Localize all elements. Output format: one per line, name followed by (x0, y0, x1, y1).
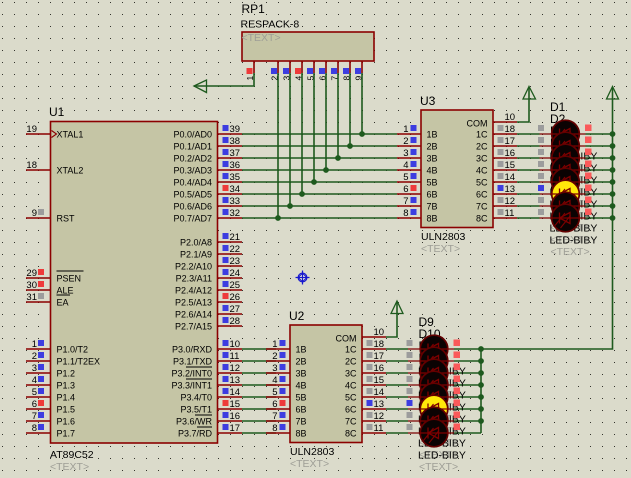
svg-text:1: 1 (403, 124, 408, 135)
wire D3 cathode to bus (586, 157, 613, 159)
U1 pin 2 (P1.1/T2EX) (26, 351, 100, 367)
D13 cathode state square (454, 388, 461, 395)
svg-text:6B: 6B (427, 190, 438, 200)
wire U3 output to D6 anode (517, 193, 540, 195)
wire net P0.7 from U1 to U3 pin 8 (242, 217, 397, 219)
svg-text:P0.7/AD7: P0.7/AD7 (173, 214, 212, 224)
wire net P0.1 from U1 to U3 pin 2 (242, 145, 397, 147)
svg-text:2: 2 (32, 351, 37, 362)
svg-text:5B: 5B (427, 178, 438, 188)
wire D4 cathode to bus (586, 169, 613, 171)
svg-text:2C: 2C (476, 142, 488, 152)
wire net P0.2 from U1 to U3 pin 3 (242, 157, 397, 159)
svg-text:6: 6 (272, 399, 277, 410)
U1 pin 10 (P3.0/RXD) (172, 339, 242, 355)
U1 pin 32 (P0.7/AD7) (173, 208, 242, 224)
LED D2 labels (550, 112, 598, 186)
svg-text:ULN2803: ULN2803 (421, 231, 466, 243)
D11 cathode state square (454, 364, 461, 371)
U3 pin 18 (1C) (476, 124, 517, 140)
LED D7 labels (550, 172, 598, 246)
XTAL1 clock marker (52, 131, 57, 138)
U3 pin 13 (6C) (476, 184, 517, 200)
power terminal arrow (up, U3 COM) (523, 87, 536, 100)
svg-text:P3.0/RXD: P3.0/RXD (172, 345, 213, 355)
U2 pin 17 (2C) (345, 351, 386, 367)
svg-text:P0.5/AD5: P0.5/AD5 (173, 190, 212, 200)
svg-text:ALE: ALE (57, 286, 74, 296)
U1 pin 17 (P3.7/RD) (178, 423, 242, 439)
svg-text:8: 8 (32, 423, 37, 434)
svg-text:4B: 4B (427, 166, 438, 176)
svg-text:14: 14 (230, 387, 241, 398)
U2 body (290, 325, 362, 443)
LED D10 body (408, 347, 454, 375)
wire D7 cathode to bus (586, 205, 613, 207)
VCC bus right vertical (481, 88, 613, 349)
U2 pin 2 (2B) (266, 351, 307, 367)
wire U2 output to D14 anode (386, 408, 408, 410)
U2 pin 16 (3C) (345, 363, 386, 379)
svg-text:1B: 1B (427, 130, 438, 140)
svg-text:4: 4 (403, 160, 408, 171)
U1 body (51, 122, 218, 444)
svg-text:<TEXT>: <TEXT> (419, 461, 458, 473)
svg-text:<TEXT>: <TEXT> (421, 243, 460, 255)
svg-text:18: 18 (374, 339, 385, 350)
U1 pin 38 (P0.1/AD1) (173, 136, 242, 152)
svg-text:13: 13 (505, 184, 516, 195)
svg-text:23: 23 (230, 256, 241, 267)
svg-text:P1.3: P1.3 (57, 381, 76, 391)
wire D1 cathode to bus (586, 133, 613, 135)
darlington array U3 ULN2803 (420, 94, 493, 255)
svg-text:P0.6/AD6: P0.6/AD6 (173, 202, 212, 212)
svg-text:38: 38 (230, 136, 241, 147)
U1 pin 9 (RST) (26, 208, 75, 224)
svg-text:26: 26 (230, 292, 241, 303)
LED D11 labels (418, 339, 466, 413)
svg-text:11: 11 (505, 208, 515, 219)
svg-text:5: 5 (32, 387, 37, 398)
U1 pin 5 (P1.4) (26, 387, 75, 403)
svg-text:5C: 5C (345, 393, 357, 403)
svg-text:P3.2/INT0: P3.2/INT0 (171, 369, 212, 379)
U1 pin 31 (EA) (26, 292, 70, 308)
D6 cathode state square (585, 185, 592, 192)
svg-text:ULN2803: ULN2803 (290, 446, 335, 458)
svg-text:P0.0/AD0: P0.0/AD0 (173, 130, 212, 140)
svg-text:<TEXT>: <TEXT> (50, 461, 89, 473)
svg-text:AT89C52: AT89C52 (50, 449, 94, 461)
LED D3 labels (550, 124, 598, 198)
U3 pin 15 (4C) (476, 160, 517, 176)
wire U3 output to D5 anode (517, 181, 540, 183)
D8 cathode state square (585, 209, 592, 216)
microcontroller U1 AT89C52 (49, 105, 218, 473)
LED D7 body (540, 192, 586, 220)
svg-text:1: 1 (272, 339, 277, 350)
svg-text:P3.3/INT1: P3.3/INT1 (171, 381, 212, 391)
svg-text:32: 32 (230, 208, 241, 219)
LED D13 labels (418, 363, 466, 437)
D1 anode state square (538, 125, 544, 131)
junction RP1 pin 6 (323, 167, 329, 173)
LED D5 labels (550, 148, 598, 222)
svg-text:9: 9 (32, 208, 37, 219)
svg-text:1B: 1B (296, 345, 307, 355)
svg-text:P3.4/T0: P3.4/T0 (180, 393, 212, 403)
svg-text:P2.2/A10: P2.2/A10 (175, 262, 212, 272)
svg-text:6C: 6C (476, 190, 488, 200)
RP1 pin 3 (282, 61, 292, 81)
svg-text:18: 18 (26, 160, 37, 171)
RP1 body (242, 32, 374, 61)
U3 pin 14 (5C) (476, 172, 517, 188)
wire RP1 pin 4 to bus row P0.4 (301, 73, 303, 194)
svg-text:25: 25 (230, 280, 241, 291)
wire U2 output to D12 anode (386, 384, 408, 386)
wire U3 output to D2 anode (517, 145, 540, 147)
wire U3 output to D8 anode (517, 217, 540, 219)
svg-text:7: 7 (403, 196, 408, 207)
svg-text:14: 14 (374, 387, 385, 398)
svg-text:P0.4/AD4: P0.4/AD4 (173, 178, 212, 188)
LED D15 body (408, 407, 454, 435)
svg-text:37: 37 (230, 148, 241, 159)
U1 pin 12 (P3.2/INT0) (171, 363, 242, 379)
svg-text:17: 17 (374, 351, 385, 362)
svg-text:1C: 1C (345, 345, 357, 355)
LED D15 labels (418, 387, 466, 461)
U1 pin 30 (ALE) (26, 280, 74, 296)
U1 pin 13 (P3.3/INT1) (171, 375, 242, 391)
D11 anode state square (407, 364, 413, 370)
U2 pin 15 (4C) (345, 375, 386, 391)
svg-text:P3.6/WR: P3.6/WR (176, 417, 213, 427)
svg-text:3C: 3C (476, 154, 488, 164)
junction RP1 pin 8 (347, 143, 353, 149)
U3 body (421, 110, 493, 228)
U2 pin 10 (COM) (362, 327, 386, 338)
D1 cathode state square (585, 125, 592, 132)
svg-text:15: 15 (374, 375, 385, 386)
LED D14 body (408, 395, 454, 423)
svg-text:22: 22 (230, 244, 241, 255)
U1 pin 24 (P2.3/A11) (176, 268, 242, 284)
LED D12 labels (418, 351, 466, 425)
LED D16 labels (418, 399, 466, 473)
U1 pin 37 (P0.2/AD2) (173, 148, 242, 164)
svg-text:XTAL2: XTAL2 (57, 166, 84, 176)
U1 pin 33 (P0.6/AD6) (173, 196, 242, 212)
U3 pin 17 (2C) (476, 136, 517, 152)
svg-text:5: 5 (403, 172, 408, 183)
wire net P3.1 from U1 to U2 pin 2 (242, 360, 276, 362)
wire D11 cathode to bus (454, 372, 481, 374)
svg-text:17: 17 (230, 423, 241, 434)
svg-text:U2: U2 (289, 309, 305, 323)
svg-text:21: 21 (230, 232, 241, 243)
svg-text:RST: RST (57, 214, 76, 224)
svg-text:5B: 5B (296, 393, 307, 403)
bus bottom LED stack vertical (480, 349, 482, 433)
power terminal arrow (up, VCC bus) (607, 87, 619, 100)
svg-text:10: 10 (505, 112, 516, 123)
svg-text:15: 15 (505, 160, 516, 171)
U1 pin 19 (XTAL1) (26, 124, 83, 140)
junction bottom bus row 373 (478, 370, 484, 376)
svg-text:3C: 3C (345, 369, 357, 379)
LED D10 labels (418, 327, 466, 401)
LED D9 labels (418, 315, 466, 389)
RP1 pin 2 (270, 61, 280, 81)
U3 pin 12 (7C) (476, 196, 517, 212)
wire net P0.6 from U1 to U3 pin 7 (242, 205, 397, 207)
U1 pin 8 (P1.7) (26, 423, 75, 439)
svg-text:P0.3/AD3: P0.3/AD3 (173, 166, 212, 176)
U1 pin 26 (P2.5/A13) (175, 292, 242, 308)
wire D13 cathode to bus (454, 396, 481, 398)
svg-text:16: 16 (230, 411, 241, 422)
U1 pin 21 (P2.0/A8) (180, 232, 242, 248)
junction bottom bus row 421 (478, 418, 484, 424)
svg-text:12: 12 (505, 196, 516, 207)
LED D11 body (408, 359, 454, 387)
svg-text:39: 39 (230, 124, 241, 135)
wire D2 cathode to bus (586, 145, 613, 147)
svg-text:5: 5 (272, 387, 277, 398)
U1 pin 3 (P1.2) (26, 363, 75, 379)
U3 pin 16 (3C) (476, 148, 517, 164)
junction RP1 pin 5 (311, 179, 317, 185)
D10 cathode state square (454, 352, 461, 359)
wire D15 cathode to bus (454, 420, 481, 422)
svg-text:16: 16 (505, 148, 516, 159)
U1 pin 23 (P2.2/A10) (175, 256, 242, 272)
svg-text:12: 12 (374, 411, 385, 422)
wire D6 cathode to bus (586, 193, 613, 195)
svg-text:6: 6 (32, 399, 37, 410)
wire RP1 pin 5 to bus row P0.3 (313, 73, 315, 182)
power terminal arrow (left) (194, 80, 207, 93)
svg-text:24: 24 (230, 268, 241, 279)
U3 pin 7 (7B) (397, 196, 438, 212)
junction RP1 pin 3 (287, 203, 293, 209)
wire D14 cathode to bus (454, 408, 481, 410)
D7 cathode state square (585, 197, 592, 204)
svg-text:7C: 7C (345, 417, 357, 427)
LED D8 body (540, 204, 586, 232)
wire U2 output to D16 anode (386, 432, 408, 434)
RP1 pin 1 (245, 61, 255, 81)
U1 pin 6 (P1.5) (26, 399, 75, 415)
power terminal arrow (up, U2 COM) (391, 301, 403, 314)
svg-text:11: 11 (230, 351, 240, 362)
D8 anode state square (538, 209, 544, 215)
wire U3 output to D7 anode (517, 205, 540, 207)
U2 pin 3 (3B) (266, 363, 307, 379)
svg-text:15: 15 (230, 399, 241, 410)
svg-text:10: 10 (374, 327, 385, 338)
U1 pin 22 (P2.1/A9) (180, 244, 242, 260)
U3 pin 6 (6B) (397, 184, 438, 200)
D12 anode state square (407, 376, 413, 382)
svg-text:6C: 6C (345, 405, 357, 415)
svg-text:7B: 7B (427, 202, 438, 212)
svg-text:2B: 2B (427, 142, 438, 152)
D12 cathode state square (454, 376, 461, 383)
D2 anode state square (538, 137, 544, 143)
wire RP1 pin 6 to bus row P0.2 (325, 73, 327, 170)
wire net P3.5 from U1 to U2 pin 6 (242, 408, 276, 410)
U2 pin 11 (8C) (345, 423, 386, 439)
svg-text:P2.6/A14: P2.6/A14 (175, 310, 212, 320)
U1 pin 7 (P1.6) (26, 411, 75, 427)
svg-text:28: 28 (230, 316, 241, 327)
U1 pin 11 (P3.1/TXD) (173, 351, 242, 367)
svg-text:LED-BIBY: LED-BIBY (418, 450, 466, 462)
U1 pin 34 (P0.5/AD5) (173, 184, 242, 200)
svg-text:4B: 4B (296, 381, 307, 391)
svg-text:36: 36 (230, 160, 241, 171)
svg-text:2: 2 (403, 136, 408, 147)
D16 cathode state square (454, 424, 461, 431)
junction bus row 182 (610, 179, 616, 185)
svg-text:8: 8 (403, 208, 408, 219)
D13 anode state square (407, 388, 413, 394)
U2 pin 6 (6B) (266, 399, 307, 415)
svg-text:10: 10 (230, 339, 241, 350)
U1 pin 36 (P0.3/AD3) (173, 160, 242, 176)
svg-text:4C: 4C (476, 166, 488, 176)
U2 pin 5 (5B) (266, 387, 307, 403)
U3 pin 2 (2B) (397, 136, 438, 152)
wire net P3.0 from U1 to U2 pin 1 (242, 348, 276, 350)
U3 pin 4 (4B) (397, 160, 438, 176)
junction RP1 pin 4 (299, 191, 305, 197)
svg-text:8C: 8C (345, 429, 357, 439)
LED D13 body (408, 383, 454, 411)
svg-text:PSEN: PSEN (57, 274, 82, 284)
U2 pin 12 (7C) (345, 411, 386, 427)
svg-text:P2.7/A15: P2.7/A15 (175, 322, 212, 332)
RP1 pin 5 (306, 61, 316, 81)
svg-text:33: 33 (230, 196, 241, 207)
LED D5 body (540, 168, 586, 196)
svg-text:P2.3/A11: P2.3/A11 (176, 274, 212, 284)
svg-text:RESPACK-8: RESPACK-8 (241, 19, 300, 31)
junction bus row 194 (610, 191, 616, 197)
svg-text:XTAL1: XTAL1 (57, 130, 84, 140)
svg-text:30: 30 (26, 280, 37, 291)
svg-text:16: 16 (374, 363, 385, 374)
svg-text:3: 3 (32, 363, 37, 374)
svg-text:35: 35 (230, 172, 241, 183)
U2 pin 1 (1B) (266, 339, 307, 355)
U2 pin 14 (5C) (345, 387, 386, 403)
svg-text:P0.1/AD1: P0.1/AD1 (173, 142, 212, 152)
D10 anode state square (407, 352, 413, 358)
junction bus row 218 (610, 215, 616, 221)
svg-text:COM: COM (467, 119, 488, 129)
svg-text:P1.4: P1.4 (57, 393, 76, 403)
wire net P0.3 from U1 to U3 pin 4 (242, 169, 397, 171)
D2 cathode state square (585, 137, 592, 144)
svg-text:P1.5: P1.5 (57, 405, 76, 415)
LED D4 body (540, 156, 586, 184)
junction bottom bus row 397 (478, 394, 484, 400)
svg-text:18: 18 (505, 124, 516, 135)
svg-text:8: 8 (272, 423, 277, 434)
svg-text:EA: EA (57, 298, 69, 308)
D9 anode state square (407, 340, 413, 346)
svg-text:13: 13 (374, 399, 385, 410)
wire D8 cathode to bus (586, 217, 613, 219)
junction bus row 134 (610, 131, 616, 137)
junction RP1 pin 7 (335, 155, 341, 161)
wire U2 output to D10 anode (386, 360, 408, 362)
wire net P3.3 from U1 to U2 pin 4 (242, 384, 276, 386)
D5 cathode state square (585, 173, 592, 180)
wire U3 output to D1 anode (517, 133, 540, 135)
U3 pin 10 (COM) (493, 112, 517, 123)
D14 cathode state square (454, 400, 461, 407)
svg-text:14: 14 (505, 172, 516, 183)
D15 anode state square (407, 412, 413, 418)
svg-text:5C: 5C (476, 178, 488, 188)
svg-text:2: 2 (272, 351, 277, 362)
svg-text:2B: 2B (296, 357, 307, 367)
svg-text:1C: 1C (476, 130, 488, 140)
RP1 pin 4 (294, 61, 304, 81)
U1 pin 16 (P3.6/WR) (176, 411, 242, 427)
LED D3 body (540, 144, 586, 172)
LED D14 labels (418, 375, 466, 449)
svg-text:3B: 3B (427, 154, 438, 164)
D4 anode state square (538, 161, 544, 167)
U1 pin 4 (P1.3) (26, 375, 75, 391)
wire D9 cathode to bus (454, 348, 481, 350)
U2 pin 4 (4B) (266, 375, 307, 391)
svg-text:34: 34 (230, 184, 241, 195)
D16 anode state square (407, 424, 413, 430)
U3 pin 8 (8B) (397, 208, 438, 224)
D3 anode state square (538, 149, 544, 155)
LED D8 labels (550, 184, 598, 258)
svg-text:P3.1/TXD: P3.1/TXD (173, 357, 213, 367)
svg-text:6B: 6B (296, 405, 307, 415)
U3 pin 11 (8C) (476, 208, 517, 224)
svg-text:13: 13 (230, 375, 241, 386)
LED D4 labels (550, 136, 598, 210)
LED D2 body (540, 132, 586, 160)
wire RP1 pin 9 to bus row P0.-1 (361, 73, 363, 134)
svg-text:LED-BIBY: LED-BIBY (550, 235, 598, 247)
wire net P3.6 from U1 to U2 pin 7 (242, 420, 276, 422)
junction bus row 146 (610, 143, 616, 149)
wire U2 output to D15 anode (386, 420, 408, 422)
svg-text:4: 4 (272, 375, 277, 386)
svg-text:P2.0/A8: P2.0/A8 (180, 238, 212, 248)
U1 pin 14 (P3.4/T0) (180, 387, 242, 403)
svg-text:U3: U3 (420, 94, 436, 108)
U1 pin 25 (P2.4/A12) (175, 280, 242, 296)
wire U3 COM to power terminal (517, 88, 529, 122)
svg-text:P2.4/A12: P2.4/A12 (175, 286, 212, 296)
U2 pin 8 (8B) (266, 423, 307, 439)
svg-text:3B: 3B (296, 369, 307, 379)
